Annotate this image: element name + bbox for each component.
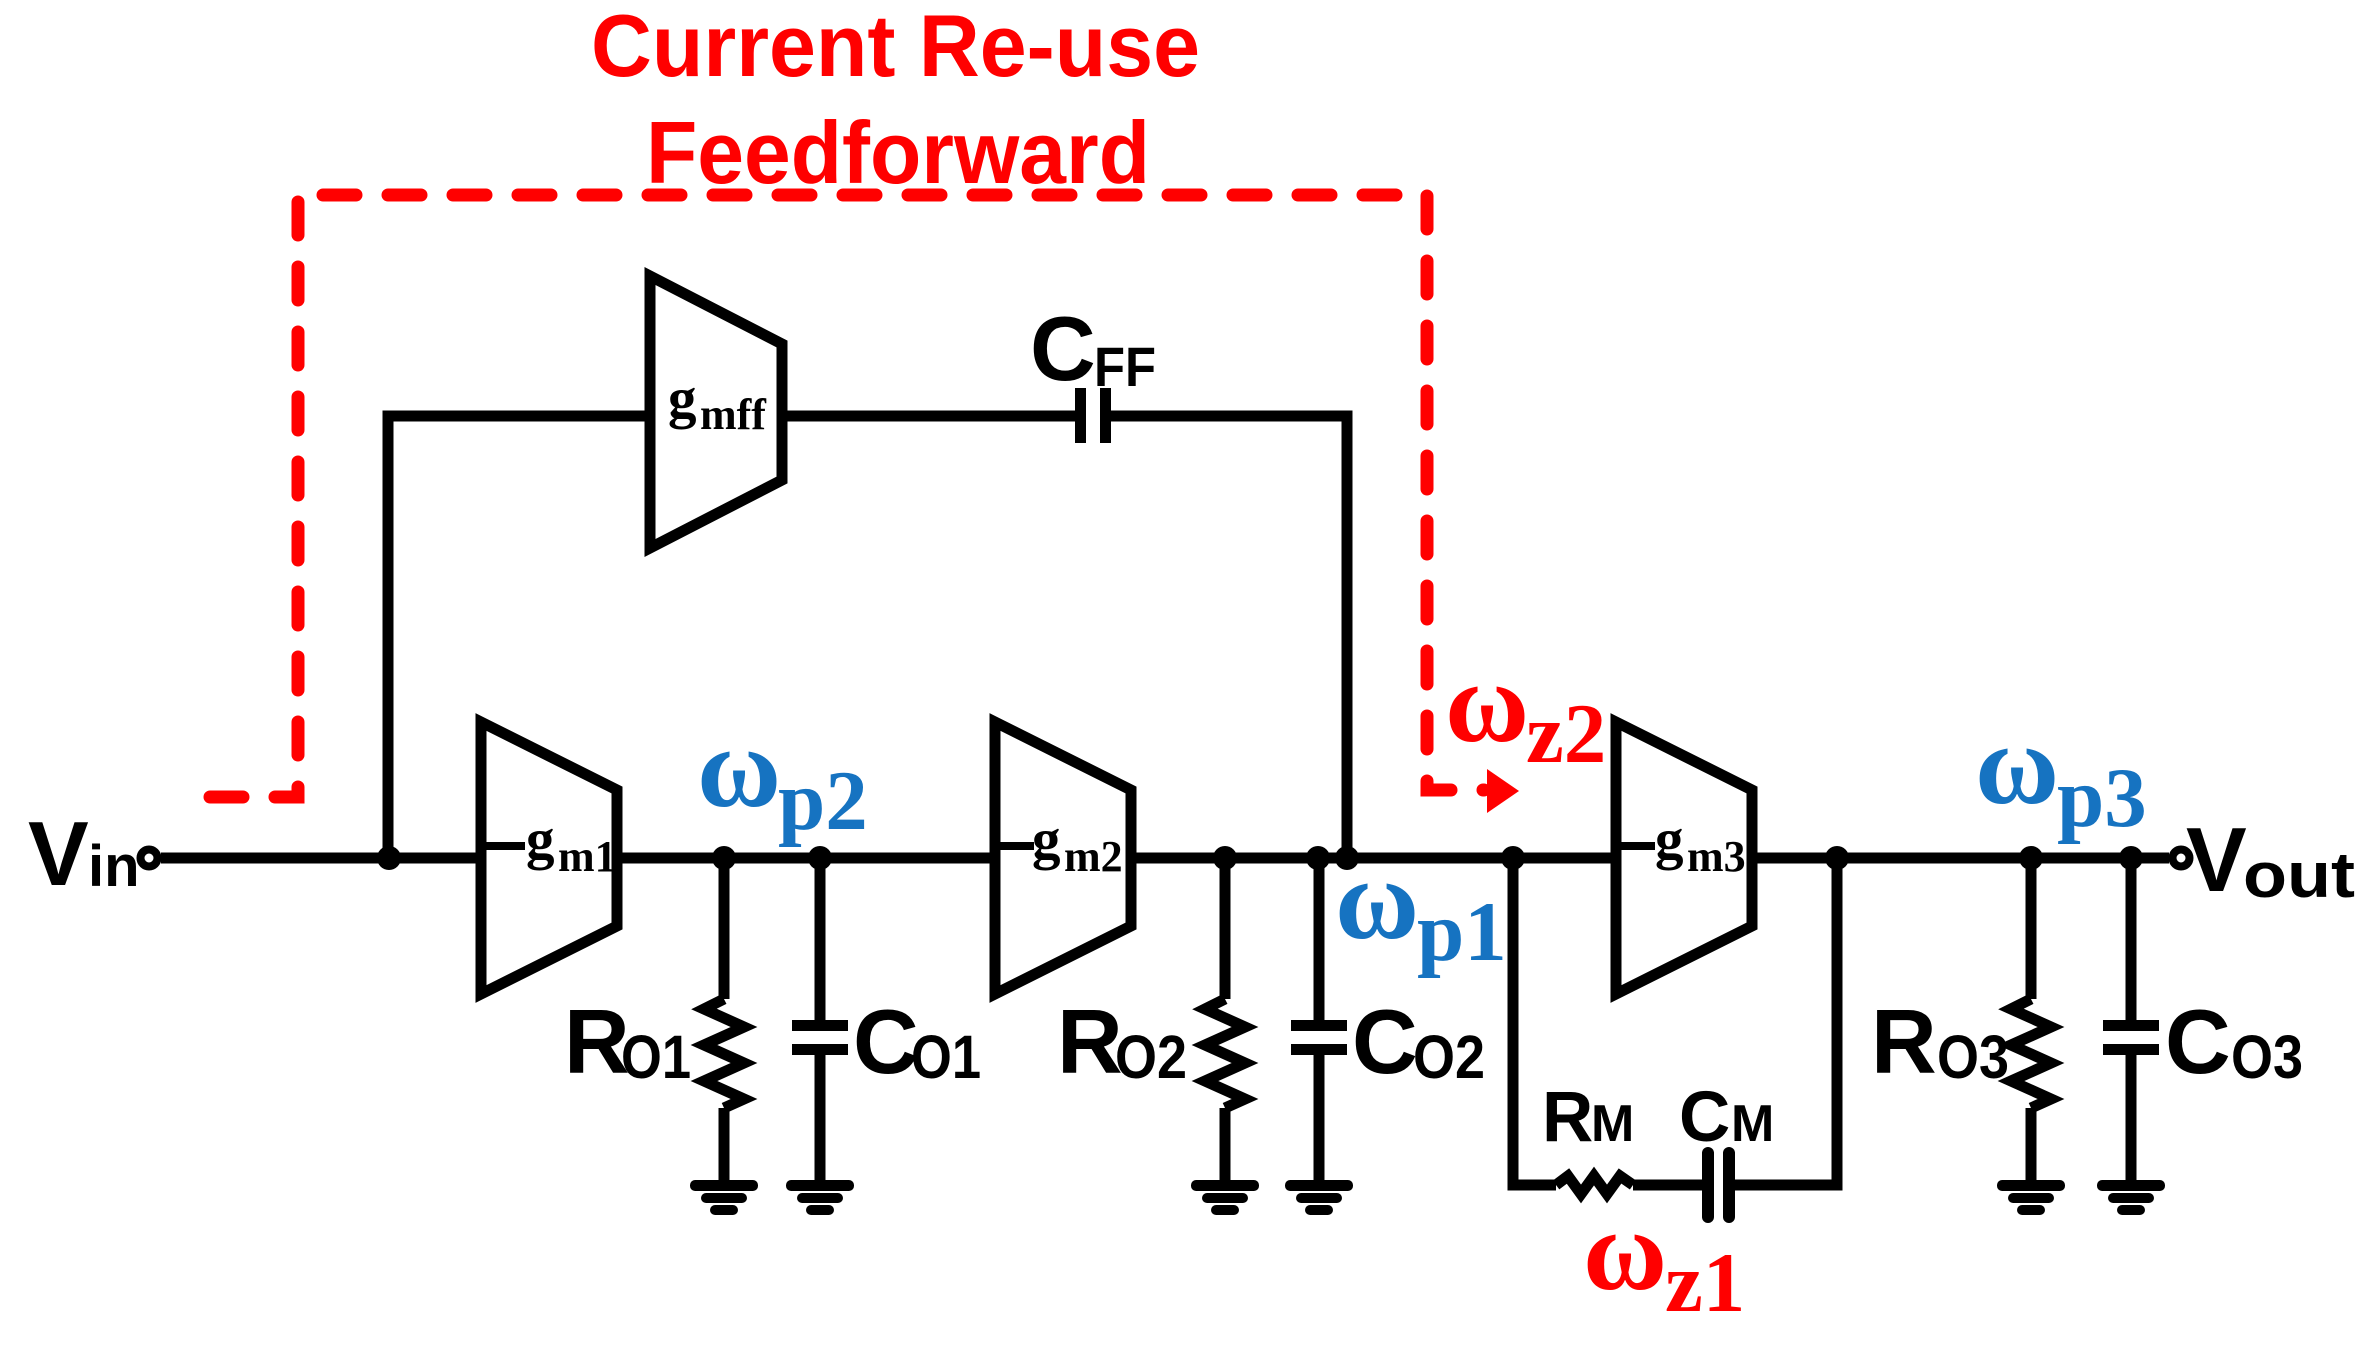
svg-text:z2: z2 bbox=[1526, 687, 1606, 781]
svg-text:Current Re-use: Current Re-use bbox=[591, 0, 1200, 95]
svg-text:C: C bbox=[1679, 1078, 1730, 1157]
svg-text:p3: p3 bbox=[2057, 751, 2147, 845]
svg-text:in: in bbox=[88, 834, 140, 899]
svg-text:C: C bbox=[853, 992, 919, 1093]
svg-text:ω: ω bbox=[1445, 639, 1529, 766]
svg-text:C: C bbox=[1030, 299, 1096, 400]
svg-text:C: C bbox=[1352, 992, 1418, 1093]
svg-text:m2: m2 bbox=[1064, 832, 1123, 881]
svg-text:V: V bbox=[28, 804, 89, 905]
svg-text:p2: p2 bbox=[778, 754, 868, 848]
svg-text:m3: m3 bbox=[1687, 832, 1746, 881]
svg-text:z1: z1 bbox=[1665, 1236, 1745, 1330]
svg-text:O2: O2 bbox=[1115, 1023, 1187, 1091]
svg-text:O3: O3 bbox=[1937, 1023, 2009, 1091]
svg-text:O1: O1 bbox=[621, 1023, 691, 1091]
svg-text:ω: ω bbox=[697, 704, 781, 831]
svg-text:R: R bbox=[1542, 1078, 1593, 1157]
svg-text:ω: ω bbox=[1975, 701, 2059, 828]
svg-text:FF: FF bbox=[1094, 335, 1156, 398]
svg-text:m1: m1 bbox=[558, 832, 617, 881]
svg-text:p1: p1 bbox=[1417, 885, 1507, 979]
svg-text:ω: ω bbox=[1335, 836, 1419, 963]
svg-text:C: C bbox=[2165, 992, 2231, 1093]
svg-text:g: g bbox=[1032, 808, 1061, 871]
svg-text:mff: mff bbox=[700, 390, 767, 439]
svg-text:O1: O1 bbox=[911, 1023, 981, 1091]
svg-text:R: R bbox=[1871, 992, 1937, 1093]
svg-text:V: V bbox=[2186, 810, 2247, 911]
svg-text:g: g bbox=[1655, 808, 1684, 871]
svg-text:g: g bbox=[526, 808, 555, 871]
svg-text:M: M bbox=[1591, 1095, 1634, 1153]
svg-text:M: M bbox=[1731, 1095, 1774, 1153]
svg-text:ω: ω bbox=[1583, 1187, 1667, 1314]
svg-text:Feedforward: Feedforward bbox=[646, 103, 1150, 202]
svg-text:R: R bbox=[1057, 992, 1123, 1093]
svg-text:g: g bbox=[668, 367, 697, 430]
svg-text:out: out bbox=[2243, 839, 2355, 911]
svg-text:O2: O2 bbox=[1413, 1023, 1485, 1091]
svg-text:R: R bbox=[564, 992, 630, 1093]
svg-text:O3: O3 bbox=[2231, 1023, 2303, 1091]
